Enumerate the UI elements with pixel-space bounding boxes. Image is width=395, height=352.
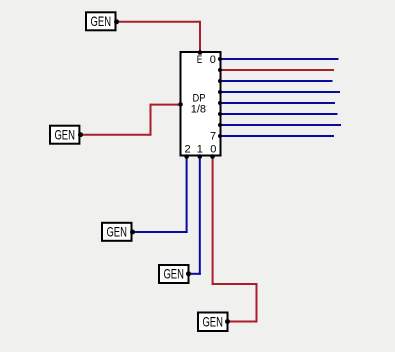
pin output 6 dot xyxy=(218,123,222,127)
pin select 0 dot xyxy=(210,154,215,159)
svg-text:0: 0 xyxy=(210,54,216,66)
generator GEN2 box xyxy=(50,126,79,144)
pin output 1 dot xyxy=(218,68,222,72)
svg-text:E: E xyxy=(197,54,203,66)
wire GEN1 to E pin (vertical) xyxy=(199,21,201,52)
generator GEN4 pin dot xyxy=(186,271,191,276)
wire output 0 xyxy=(222,58,339,60)
svg-text:GEN: GEN xyxy=(163,266,184,282)
svg-text:7: 7 xyxy=(210,131,216,143)
wire select 0 horizontal to GEN5 xyxy=(228,321,258,323)
generator GEN1 box xyxy=(86,12,116,30)
wire GEN2 to left input (horizontal from GEN2) xyxy=(81,134,151,136)
svg-text:GEN: GEN xyxy=(202,313,223,329)
svg-text:GEN: GEN xyxy=(106,224,127,240)
wire select 1 vertical from chip to corner xyxy=(199,157,201,275)
wire select 0 horizontal right xyxy=(212,283,258,285)
svg-text:2: 2 xyxy=(184,144,190,156)
pin select 2 dot xyxy=(184,154,189,159)
generator GEN3 box xyxy=(102,223,132,241)
pin input dot (chip left) xyxy=(178,102,183,107)
wire select 2 vertical from chip to corner xyxy=(186,157,188,234)
wire output 4 xyxy=(222,102,336,104)
pin output 3 dot xyxy=(218,90,222,94)
wire output 2 xyxy=(222,80,333,82)
generator GEN4 box xyxy=(159,265,189,283)
demultiplexer U1 DP 1/8 body xyxy=(181,52,221,156)
wire output 6 xyxy=(222,124,342,126)
svg-text:GEN: GEN xyxy=(54,127,75,143)
pin output 5 dot xyxy=(218,112,222,116)
generator GEN1 pin dot xyxy=(114,19,119,24)
generator GEN5 box xyxy=(198,313,228,332)
wire output 1 xyxy=(222,69,335,71)
wire select 2 horizontal to GEN3 xyxy=(133,231,188,233)
wire output 5 xyxy=(222,113,338,115)
svg-text:GEN: GEN xyxy=(91,13,112,29)
generator GEN3 pin dot xyxy=(130,230,135,235)
pin output 7 dot xyxy=(218,134,222,138)
wire output 3 xyxy=(222,91,341,93)
svg-text:0: 0 xyxy=(210,144,216,156)
pin output 2 dot xyxy=(218,79,222,83)
generator GEN2 pin dot xyxy=(78,132,83,137)
pin E dot (chip top) xyxy=(198,50,203,55)
wire select 0 vertical from chip down xyxy=(212,157,214,286)
svg-text:1/8: 1/8 xyxy=(191,103,206,115)
wire select 1 horizontal to GEN4 xyxy=(189,273,201,275)
wire GEN2 to left input (vertical riser) xyxy=(150,104,152,136)
wire select 0 vertical down xyxy=(256,283,258,323)
pin select 1 dot xyxy=(198,154,203,159)
pin output 0 dot xyxy=(218,57,222,61)
generator GEN5 pin dot xyxy=(225,319,230,324)
wire output 7 xyxy=(222,135,335,137)
wire GEN1 to E pin (horizontal) xyxy=(117,21,201,23)
pin output 4 dot xyxy=(218,101,222,105)
svg-text:1: 1 xyxy=(197,144,203,156)
wire GEN2 to left input (horizontal into pin) xyxy=(151,104,181,106)
